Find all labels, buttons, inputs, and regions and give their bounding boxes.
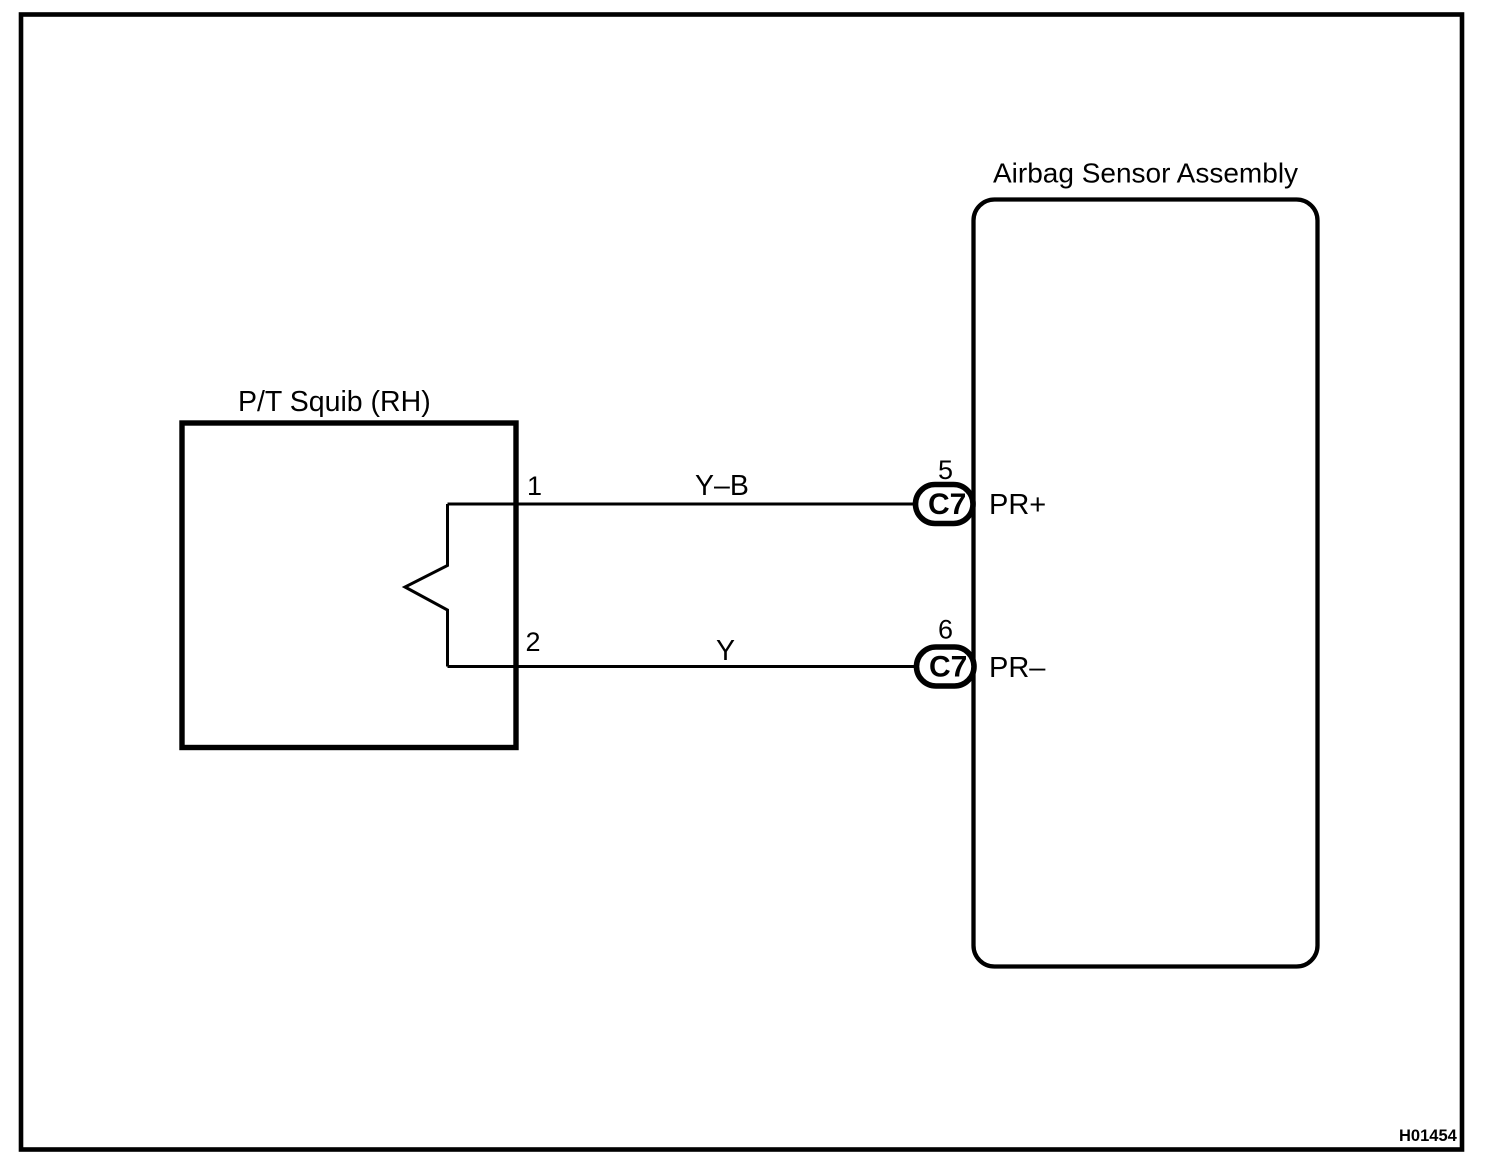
svg-text:6: 6 — [938, 615, 953, 645]
svg-text:H01454: H01454 — [1399, 1127, 1458, 1145]
svg-text:PR–: PR– — [989, 652, 1046, 684]
svg-text:P/T Squib (RH): P/T Squib (RH) — [238, 386, 431, 418]
svg-text:PR+: PR+ — [989, 489, 1046, 521]
svg-text:C7: C7 — [928, 488, 966, 521]
svg-text:Y–B: Y–B — [695, 470, 749, 502]
component box Airbag Sensor Assembly — [974, 200, 1318, 967]
svg-text:5: 5 — [938, 455, 953, 485]
wire Y-B (pin 1 to C7 pin 5) — [448, 503, 914, 506]
svg-text:1: 1 — [527, 471, 542, 501]
svg-text:Airbag Sensor Assembly: Airbag Sensor Assembly — [993, 158, 1298, 189]
connector C7 (pin 6) — [917, 647, 975, 686]
connector C7 (pin 5) — [916, 485, 974, 524]
svg-text:Y: Y — [716, 635, 735, 667]
svg-text:2: 2 — [526, 627, 541, 657]
svg-text:C7: C7 — [929, 651, 967, 684]
wire Y (pin 2 to C7 pin 6) — [448, 665, 915, 668]
component box P/T Squib (RH) — [182, 423, 516, 748]
connector symbol inside squib — [405, 504, 448, 667]
